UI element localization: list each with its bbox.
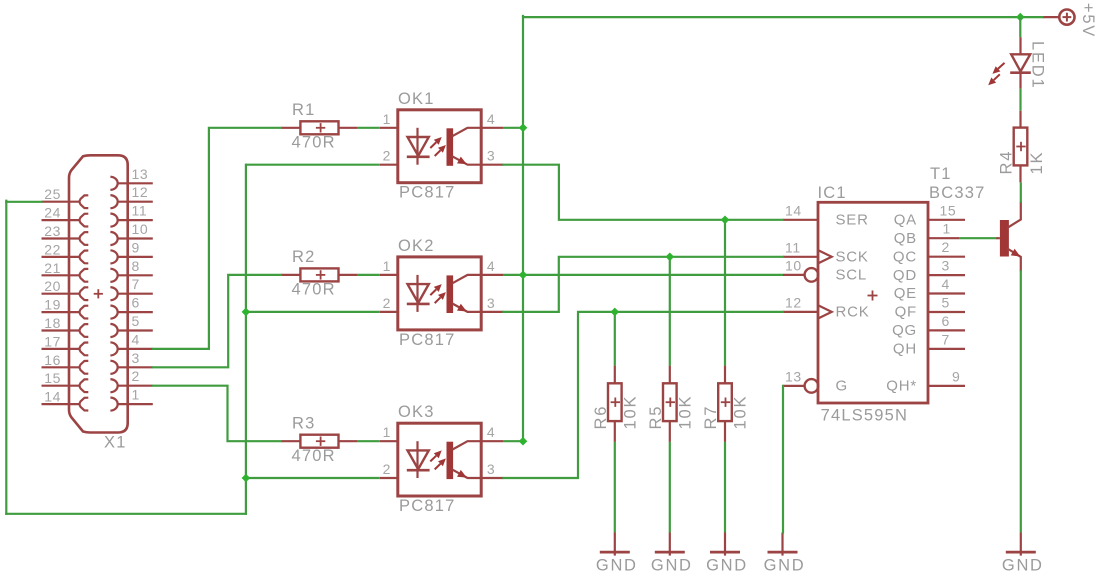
optocoupler OK1 value label PC817	[399, 184, 455, 202]
connector X1 pin 18	[42, 315, 89, 337]
junction SCK at R5	[666, 253, 675, 262]
svg-text:QA: QA	[894, 212, 917, 229]
optocoupler OK2 pin 1	[380, 258, 398, 275]
svg-text:4: 4	[132, 331, 140, 347]
svg-text:QC: QC	[893, 248, 917, 265]
connector X1 pin 25	[42, 186, 89, 208]
IC1 pin 12 RCK (clock)	[783, 294, 870, 320]
IC1 pin 13 G (inverted)	[783, 368, 848, 394]
wire common to OK2 pin2	[246, 311, 380, 313]
resistor R7 (10K)	[718, 366, 732, 442]
IC IC1 box (74LS595N shift register)	[818, 202, 928, 403]
wire T1 emitter to ground	[1020, 270, 1022, 532]
wire X1 pin4 to R1	[153, 128, 281, 349]
wire R2 to OK2 pin1	[357, 274, 380, 276]
svg-text:PC817: PC817	[399, 184, 455, 202]
resistor R5 name label	[647, 405, 665, 430]
resistor R3 name label	[292, 414, 316, 432]
wire OK2 pin3 to IC1 SCK pin11	[503, 257, 783, 312]
resistor R6 name label	[592, 405, 610, 430]
svg-text:4: 4	[942, 276, 950, 292]
svg-text:14: 14	[44, 389, 61, 405]
svg-text:17: 17	[44, 333, 61, 349]
wire R3 to OK3 pin1	[357, 440, 380, 442]
svg-text:13: 13	[132, 166, 149, 182]
optocoupler OK1 pin 2	[380, 148, 398, 165]
svg-text:470R: 470R	[292, 447, 336, 465]
resistor R2 name label	[292, 248, 316, 266]
resistor R7 name label	[702, 405, 720, 430]
wire SER net to R7	[724, 220, 726, 366]
connector X1 pin 11	[110, 203, 152, 227]
svg-text:GND: GND	[764, 557, 806, 575]
svg-text:QG: QG	[892, 322, 917, 339]
svg-text:19: 19	[44, 297, 61, 313]
wire +5V vertical x523 down to OK3 pin4	[522, 16, 524, 441]
wire LED1 cathode to R4	[1019, 89, 1021, 111]
IC1 pin 5 QF	[895, 295, 965, 321]
optocoupler OK1 pin 3	[481, 148, 503, 165]
svg-text:GND: GND	[596, 557, 638, 575]
svg-text:R6: R6	[592, 405, 610, 430]
svg-text:R7: R7	[702, 405, 720, 430]
resistor R6 value label 10K	[621, 395, 639, 430]
ground GND symbol 3	[706, 533, 748, 575]
LED LED1 light arrows	[988, 63, 1004, 85]
svg-text:10: 10	[132, 221, 149, 237]
IC IC1 value label 74LS595N	[821, 407, 909, 425]
connector X1 name label	[104, 434, 127, 452]
wire common to OK1 pin2	[246, 164, 380, 166]
connector X1 pin 1	[110, 387, 152, 411]
junction RCK at R6	[611, 308, 620, 317]
connector X1 pin 19	[42, 297, 89, 319]
svg-text:3: 3	[487, 148, 495, 164]
transistor T1 collector	[1008, 203, 1021, 228]
IC1 pin 7 QH	[893, 331, 965, 357]
resistor R4 value label 1K	[1028, 151, 1046, 175]
junction common at OK3 pin2	[242, 474, 251, 483]
IC1 pin 6 QG	[892, 313, 965, 339]
IC1 pin 2 QC	[893, 239, 965, 265]
connector X1 pin 15	[42, 370, 89, 392]
wire IC1 pin13 G to ground	[782, 386, 784, 533]
connector X1 pin 3	[110, 350, 152, 374]
svg-text:24: 24	[44, 205, 61, 221]
resistor R3 (470R)	[281, 435, 357, 448]
svg-text:15: 15	[940, 202, 957, 218]
IC1 pin 11 SCK (clock)	[783, 239, 869, 265]
svg-text:470R: 470R	[292, 133, 336, 151]
transistor T1 value label BC337	[929, 184, 985, 202]
wire X1 pin3 to R2	[153, 275, 281, 367]
transistor T1 base bar	[1000, 220, 1009, 257]
optocoupler OK2 pin 4	[481, 258, 503, 275]
IC1 pin 10 SCL (inverted)	[783, 257, 867, 283]
svg-text:SCK: SCK	[836, 248, 869, 265]
wire OK1 pin3 to IC1 SER pin14	[503, 165, 783, 220]
wire common to OK3 pin2	[246, 477, 380, 479]
svg-text:14: 14	[785, 202, 802, 218]
connector X1 pin 14	[42, 389, 89, 411]
connector X1 pin 13	[110, 166, 152, 190]
connector X1 pin 7	[110, 276, 152, 300]
svg-text:9: 9	[952, 368, 960, 384]
svg-text:OK3: OK3	[398, 403, 435, 421]
wire OK3 pin3 to IC1 RCK pin12	[503, 312, 783, 478]
svg-text:R1: R1	[292, 101, 316, 119]
optocoupler OK3 pin 3	[481, 461, 503, 478]
svg-text:11: 11	[785, 239, 801, 255]
svg-text:1K: 1K	[1028, 151, 1046, 175]
svg-text:11: 11	[132, 203, 148, 219]
svg-text:T1: T1	[930, 165, 952, 183]
svg-text:4: 4	[487, 258, 495, 274]
IC1 pin 14 SER	[783, 202, 869, 228]
optocoupler OK3 pin 4	[481, 424, 503, 441]
junction +5V rail at OK3 pin4	[519, 437, 528, 446]
optocoupler OK2 (PC817)	[398, 257, 481, 330]
wire RCK net to R6	[614, 312, 616, 366]
LED LED1 symbol	[1010, 37, 1031, 89]
wire X1 pin2 to R3	[153, 386, 281, 442]
connector X1 polarity mark +	[94, 289, 103, 298]
wire +5V horizontal top	[523, 16, 1043, 18]
transistor T1 base pin	[996, 237, 1000, 239]
svg-text:3: 3	[132, 350, 140, 366]
resistor R1 value label 470R	[292, 133, 336, 151]
svg-text:1: 1	[383, 424, 391, 440]
optocoupler OK2 value label PC817	[399, 331, 455, 349]
svg-text:OK2: OK2	[398, 237, 435, 255]
connector X1 pin 9	[110, 239, 152, 263]
resistor R5 value label 10K	[676, 395, 694, 430]
svg-text:QE: QE	[894, 285, 917, 302]
connector X1 pin 8	[110, 258, 152, 282]
svg-text:R2: R2	[292, 248, 316, 266]
junction common at OK2 pin2	[242, 308, 251, 317]
wire left edge vertical	[5, 201, 7, 514]
connector X1 pin 5	[110, 313, 152, 337]
svg-text:X1: X1	[104, 434, 127, 452]
svg-text:2: 2	[383, 148, 391, 164]
svg-text:1: 1	[383, 111, 391, 127]
svg-text:10K: 10K	[621, 395, 639, 430]
wire R6 to ground	[614, 442, 616, 533]
svg-text:8: 8	[132, 258, 140, 274]
svg-text:6: 6	[132, 295, 140, 311]
optocoupler OK1 (PC817)	[398, 110, 481, 183]
svg-text:+5V: +5V	[1079, 3, 1097, 38]
ground GND symbol 4	[764, 533, 806, 575]
ground GND symbol 5	[1002, 533, 1044, 575]
IC IC1 polarity mark +	[868, 291, 878, 301]
svg-text:20: 20	[44, 278, 61, 294]
svg-text:25: 25	[44, 186, 61, 202]
svg-text:QH*: QH*	[886, 378, 917, 395]
svg-text:12: 12	[785, 294, 802, 310]
svg-text:5: 5	[942, 295, 950, 311]
svg-text:12: 12	[132, 184, 149, 200]
IC1 pin 9 QH*	[886, 368, 965, 394]
connector X1 pin 10	[110, 221, 152, 245]
svg-text:1: 1	[132, 387, 140, 403]
optocoupler OK2 name label	[398, 237, 435, 255]
connector X1 body (DB25)	[69, 155, 128, 432]
svg-text:7: 7	[942, 331, 950, 347]
resistor R6 (10K)	[608, 366, 622, 442]
svg-text:G: G	[836, 378, 848, 395]
svg-text:13: 13	[785, 368, 802, 384]
junction +5V/top at LED1	[1016, 13, 1025, 22]
ground GND symbol 1	[596, 533, 638, 575]
svg-text:PC817: PC817	[399, 497, 455, 515]
svg-text:23: 23	[44, 223, 61, 239]
resistor R1 name label	[292, 101, 316, 119]
connector X1 pin 6	[110, 295, 152, 319]
supply +5V label	[1079, 3, 1097, 38]
LED LED1 name label	[1028, 41, 1046, 89]
junction SER at R7	[721, 216, 730, 225]
svg-text:R3: R3	[292, 414, 316, 432]
connector X1 pin 17	[42, 333, 89, 355]
wire +5V junction to LED1 anode	[1019, 17, 1021, 37]
optocoupler OK3 name label	[398, 403, 435, 421]
resistor R5 (10K)	[663, 366, 677, 442]
svg-text:9: 9	[132, 239, 140, 255]
svg-text:IC1: IC1	[818, 184, 847, 202]
IC1 pin 4 QE	[894, 276, 965, 302]
svg-text:GND: GND	[1002, 557, 1044, 575]
wire SCK net to R5	[669, 257, 671, 366]
resistor R4 (1K)	[1014, 111, 1028, 183]
connector X1 pin 21	[42, 260, 89, 282]
resistor R7 value label 10K	[732, 395, 750, 430]
IC IC1 name label	[818, 184, 847, 202]
svg-text:SER: SER	[836, 211, 869, 228]
svg-text:3: 3	[942, 258, 950, 274]
svg-text:R5: R5	[647, 405, 665, 430]
resistor R2 (470R)	[281, 268, 357, 281]
junction +5V rail at OK1 pin4	[519, 124, 528, 133]
wire bottom horizontal	[6, 513, 246, 515]
wire OK1 pin4 to +5V rail	[503, 127, 523, 129]
svg-text:2: 2	[942, 239, 950, 255]
connector X1 pin 16	[42, 352, 89, 374]
resistor R3 value label 470R	[292, 447, 336, 465]
svg-text:10: 10	[785, 257, 802, 273]
svg-text:GND: GND	[651, 557, 693, 575]
svg-text:3: 3	[487, 295, 495, 311]
connector X1 pin 12	[110, 184, 152, 208]
optocoupler OK3 pin 2	[380, 461, 398, 478]
IC1 pin 15 QA	[894, 202, 965, 228]
svg-text:4: 4	[487, 424, 495, 440]
svg-text:QB: QB	[894, 230, 917, 247]
connector X1 pin 24	[42, 205, 89, 227]
wire R7 to ground	[724, 442, 726, 533]
svg-text:4: 4	[487, 111, 495, 127]
svg-text:RCK: RCK	[836, 304, 870, 321]
IC1 pin 1 QB	[894, 221, 960, 247]
svg-text:OK1: OK1	[398, 90, 435, 108]
svg-text:470R: 470R	[292, 281, 336, 299]
svg-text:5: 5	[132, 313, 140, 329]
connector X1 pin 23	[42, 223, 89, 245]
ground GND symbol 2	[651, 533, 693, 575]
svg-text:18: 18	[44, 315, 61, 331]
svg-text:LED1: LED1	[1028, 41, 1046, 89]
connector X1 pin 20	[42, 278, 89, 300]
svg-text:PC817: PC817	[399, 331, 455, 349]
IC1 pin 3 QD	[893, 258, 965, 284]
wire R4 to T1 collector	[1020, 182, 1022, 202]
optocoupler OK1 name label	[398, 90, 435, 108]
svg-text:10K: 10K	[732, 395, 750, 430]
svg-text:22: 22	[44, 241, 61, 257]
transistor T1 emitter	[1008, 249, 1021, 271]
wire OK3 pin4 to +5V rail	[503, 440, 523, 442]
optocoupler OK2 pin 3	[481, 295, 503, 312]
svg-text:6: 6	[942, 313, 950, 329]
svg-text:QD: QD	[893, 267, 917, 284]
junction +5V rail at OK2 pin4/SCL	[519, 271, 528, 280]
svg-text:21: 21	[44, 260, 61, 276]
svg-text:1: 1	[383, 258, 391, 274]
resistor R4 name label	[998, 150, 1016, 175]
connector X1 pin 2	[110, 368, 152, 392]
wire common vertical x246	[245, 165, 247, 514]
connector X1 pin 22	[42, 241, 89, 263]
wire OK2 pin4 to +5V rail	[503, 274, 523, 276]
svg-text:2: 2	[383, 461, 391, 477]
svg-text:15: 15	[44, 370, 61, 386]
wire +5V rail to IC1 SCL pin 10	[523, 274, 783, 276]
svg-text:74LS595N: 74LS595N	[821, 407, 909, 425]
optocoupler OK1 pin 1	[380, 111, 398, 128]
svg-text:3: 3	[487, 461, 495, 477]
transistor T1 name label	[930, 165, 952, 183]
svg-text:2: 2	[383, 295, 391, 311]
svg-text:1: 1	[943, 221, 951, 237]
svg-text:7: 7	[132, 276, 140, 292]
optocoupler OK2 pin 2	[380, 295, 398, 312]
svg-text:QH: QH	[893, 341, 917, 358]
svg-text:16: 16	[44, 352, 61, 368]
svg-text:10K: 10K	[676, 395, 694, 430]
svg-text:2: 2	[132, 368, 140, 384]
svg-text:R4: R4	[998, 150, 1016, 175]
supply +5V symbol	[1043, 10, 1075, 25]
svg-text:BC337: BC337	[929, 184, 985, 202]
wire X1 pin25 to left edge	[6, 201, 41, 203]
wire R1 to OK1 pin1	[357, 127, 380, 129]
optocoupler OK3 (PC817)	[398, 423, 481, 496]
connector X1 pin 4	[110, 331, 152, 355]
optocoupler OK3 value label PC817	[399, 497, 455, 515]
svg-text:GND: GND	[706, 557, 748, 575]
svg-text:SCL: SCL	[836, 267, 868, 284]
optocoupler OK3 pin 1	[380, 424, 398, 441]
wire R5 to ground	[669, 442, 671, 533]
svg-text:QF: QF	[895, 304, 917, 321]
optocoupler OK1 pin 4	[481, 111, 503, 128]
wire IC1 QB pin1 to T1 base	[959, 237, 996, 239]
resistor R2 value label 470R	[292, 281, 336, 299]
resistor R1 (470R)	[281, 121, 357, 134]
